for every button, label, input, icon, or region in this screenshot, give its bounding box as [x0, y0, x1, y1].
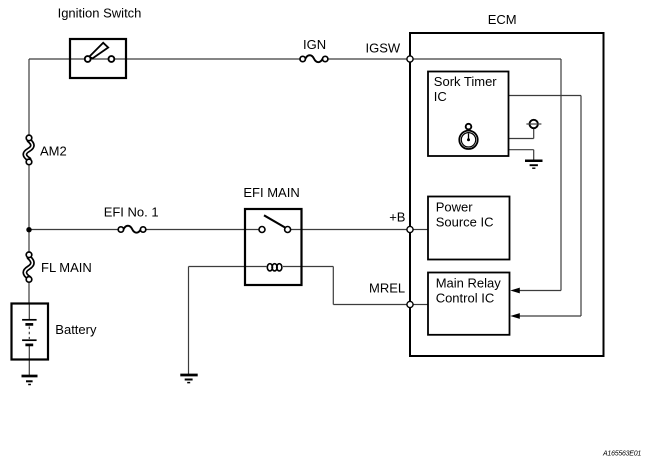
svg-text:IC: IC: [434, 89, 447, 104]
svg-text:IGSW: IGSW: [366, 40, 401, 55]
svg-text:Source IC: Source IC: [436, 214, 494, 229]
svg-text:IGN: IGN: [303, 37, 326, 52]
svg-text:MREL: MREL: [369, 281, 405, 296]
svg-text:ECM: ECM: [488, 12, 517, 27]
svg-text:+B: +B: [389, 210, 405, 225]
svg-text:EFI No. 1: EFI No. 1: [104, 204, 159, 219]
svg-text:AM2: AM2: [40, 144, 67, 159]
svg-text:Main Relay: Main Relay: [436, 275, 502, 290]
svg-text:FL MAIN: FL MAIN: [41, 260, 92, 275]
svg-text:Battery: Battery: [55, 322, 97, 337]
svg-text:Power: Power: [436, 199, 474, 214]
svg-text:Sork Timer: Sork Timer: [434, 74, 498, 89]
svg-text:Control IC: Control IC: [436, 290, 495, 305]
svg-text:Ignition Switch: Ignition Switch: [58, 6, 142, 21]
svg-text:A165563E01: A165563E01: [602, 450, 641, 457]
svg-text:EFI MAIN: EFI MAIN: [243, 185, 299, 200]
